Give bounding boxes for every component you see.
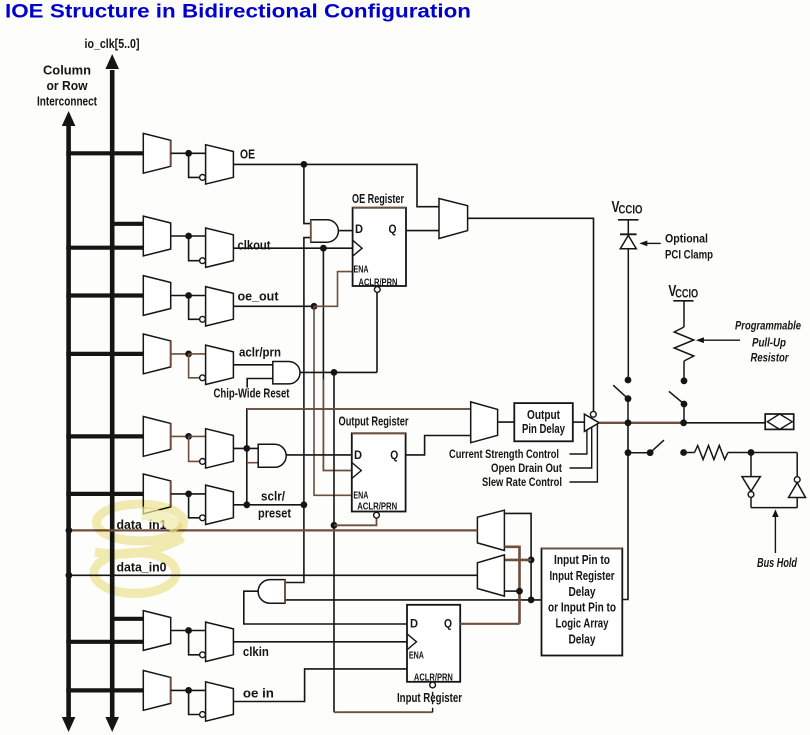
- svg-text:data_in0: data_in0: [117, 560, 167, 575]
- wire bus tap aclr/prn row: [66, 352, 143, 356]
- wire bus tap OE row: [66, 151, 143, 155]
- svg-text:Delay: Delay: [569, 633, 596, 647]
- svg-text:D: D: [354, 450, 362, 462]
- inverter bus hold feedback: [796, 453, 798, 477]
- svg-text:OE Register: OE Register: [352, 192, 404, 206]
- svg-text:Bus Hold: Bus Hold: [757, 556, 797, 570]
- AND gate chip-wide reset: [273, 362, 300, 384]
- wire data-out true input: [189, 435, 206, 437]
- wire data-out bypass riser: [247, 409, 471, 505]
- svg-text:Slew Rate Control: Slew Rate Control: [482, 475, 562, 489]
- wire stub to output AND lower input: [247, 462, 258, 464]
- wire input register Q out: [460, 623, 519, 625]
- inverter bubble data-out: [200, 459, 206, 465]
- svg-text:Resistor: Resistor: [751, 351, 790, 365]
- wire delay to buffer: [573, 421, 585, 423]
- inverter bubble oe_out: [200, 316, 206, 322]
- wire aclr vertical trunk: [333, 372, 335, 712]
- bubble buffer enable: [590, 411, 596, 417]
- junction data-out: [243, 445, 250, 452]
- mux clkout stage-1 select: [143, 216, 170, 256]
- junction input data to mux riser: [528, 597, 535, 604]
- svg-text:Current Strength Control: Current Strength Control: [449, 447, 559, 461]
- svg-text:CCIO: CCIO: [619, 205, 643, 217]
- mux clkin stage-1 select: [143, 611, 170, 651]
- wire data_in1 line: [69, 529, 478, 531]
- switch pull-up: [681, 377, 688, 384]
- wire bus tap sclr/preset row: [66, 492, 143, 496]
- svg-text:ENA: ENA: [353, 491, 368, 502]
- wire chip-wide reset stub: [247, 379, 273, 388]
- wire OE stage-1 output: [171, 152, 189, 154]
- wire sclr/preset inverted branch: [189, 494, 200, 518]
- mux sclr/preset stage-2 invert-select: [206, 485, 234, 524]
- junction data_in1 at interconnect: [66, 527, 73, 534]
- highlight connecting stroke: [95, 538, 183, 554]
- junction data-out: [185, 433, 192, 440]
- wire OE from mux to output-enable select mux: [233, 164, 439, 206]
- inverter bubble clkin: [200, 652, 206, 658]
- wire bus tap clkout row from io_clk: [112, 222, 143, 226]
- wire input data to muxes and input AND: [285, 599, 542, 601]
- mux clkout stage-2 invert-select: [206, 228, 234, 267]
- inverter bubble OE: [200, 175, 206, 181]
- svg-text:Open Drain Out: Open Drain Out: [491, 461, 562, 475]
- tri-state output buffer: [584, 414, 599, 431]
- inverter bubble clkout: [200, 258, 206, 264]
- wire data-out to AND and bypass: [233, 447, 258, 449]
- mux input data_in1 select: [477, 510, 504, 550]
- junction oe_out: [185, 292, 192, 299]
- svg-text:Input Register: Input Register: [397, 690, 462, 705]
- wire aclr/prn stage-1 output: [171, 353, 189, 355]
- svg-text:clkout: clkout: [238, 238, 272, 253]
- node Bus Hold label with arrow: [774, 515, 776, 554]
- svg-text:or Row: or Row: [47, 79, 88, 93]
- wire aclr/prn inverted branch: [189, 354, 200, 378]
- wire bus tap oe_in row: [66, 688, 143, 692]
- inverter bus hold forward: [750, 453, 752, 477]
- svg-text:Logic Array: Logic Array: [556, 617, 609, 631]
- block Input Pin to Input Register Delay: [542, 548, 623, 655]
- junction OE branch to OE register AND: [301, 161, 308, 168]
- wire bus hold bottom: [751, 507, 797, 509]
- mux oe_out stage-1 select: [143, 276, 170, 316]
- svg-text:Output: Output: [527, 408, 561, 422]
- wire bus hold resistor lead: [680, 449, 687, 456]
- inverter bubble aclr/prn: [200, 375, 206, 381]
- mux sclr/preset stage-1 select: [143, 474, 170, 514]
- wire pull-up down: [683, 361, 685, 380]
- bus Column/Row interconnect vertical line: [66, 126, 71, 720]
- wire clkin to input register clock: [233, 641, 407, 643]
- bubble OE register ACLR: [374, 287, 380, 293]
- svg-text:PCI Clamp: PCI Clamp: [665, 248, 713, 262]
- bubble input register ACLR: [430, 682, 436, 688]
- svg-text:Pin Delay: Pin Delay: [522, 422, 565, 436]
- svg-text:sclr/: sclr/: [261, 489, 285, 504]
- wire pci clamp down: [627, 249, 629, 380]
- svg-text:Input Register: Input Register: [550, 569, 615, 583]
- wire clkin stage-1 output: [171, 630, 189, 632]
- wire output enable to tri-state buffer: [468, 218, 594, 411]
- junction Q riser to mux B: [516, 588, 523, 595]
- flip-flop Output Register: [352, 433, 406, 511]
- wire Q riser to mux B lower input: [504, 590, 519, 592]
- junction aclr vertical: [331, 369, 338, 376]
- wire clkin true input: [189, 630, 206, 632]
- resistor programmable pull-up: [674, 327, 694, 361]
- svg-text:Q: Q: [390, 450, 398, 462]
- wire output register Q to data mux: [406, 436, 471, 455]
- svg-text:IOE Structure in Bidirectional: IOE Structure in Bidirectional Configura…: [5, 1, 471, 23]
- wire clkin inverted branch: [189, 631, 200, 655]
- junction clkin: [185, 627, 192, 634]
- svg-text:CCIO: CCIO: [675, 288, 698, 300]
- wire OE down to AND gate input: [304, 164, 311, 223]
- svg-text:clkin: clkin: [243, 644, 269, 659]
- svg-text:Chip-Wide Reset: Chip-Wide Reset: [214, 387, 291, 401]
- wire aclr riser to input register bubble (through label): [432, 688, 434, 712]
- svg-text:Programmable: Programmable: [735, 319, 801, 333]
- wire clock vertical to output register: [322, 248, 324, 380]
- wire sclr/preset run: [233, 504, 304, 506]
- mux oe_in stage-1 select: [143, 671, 170, 711]
- svg-text:ENA: ENA: [409, 650, 424, 661]
- wire oe_out inverted branch: [189, 296, 200, 320]
- mux output-enable select: [439, 199, 468, 239]
- svg-text:ENA: ENA: [354, 265, 369, 276]
- svg-text:Output Register: Output Register: [339, 415, 409, 429]
- wire oe_in stage-1 output: [171, 689, 189, 691]
- wire output AND to D: [286, 454, 352, 456]
- node Optional PCI Clamp label with arrow: [645, 242, 661, 244]
- junction pad line pci clamp: [625, 419, 632, 426]
- AND gate OE-register D input: [311, 220, 339, 243]
- block Output Pin Delay: [514, 403, 573, 441]
- svg-text:or Input Pin to: or Input Pin to: [548, 601, 616, 615]
- svg-text:OE: OE: [240, 147, 255, 162]
- wire sclr/preset stage-1 output: [171, 493, 189, 495]
- flip-flop Input Register: [407, 605, 460, 682]
- wire oe_in true input: [189, 689, 206, 691]
- wire bus tap clkout row from interconnect: [66, 246, 143, 250]
- switch bus hold enable: [628, 452, 650, 454]
- pad I/O pin: [765, 414, 794, 429]
- wire bus tap output-data row: [66, 434, 143, 438]
- wire OE inverted branch: [189, 153, 200, 177]
- svg-text:ACLR/PRN: ACLR/PRN: [357, 502, 397, 513]
- wire clkout stage-1 output: [171, 235, 189, 237]
- AND gate input path (mirrored): [258, 580, 285, 604]
- junction input branch: [625, 449, 632, 456]
- mux data-out stage-2 invert-select: [206, 429, 234, 468]
- junction sclr end: [301, 501, 308, 508]
- wire clkout inverted branch: [189, 236, 200, 261]
- bubble output register ACLR: [374, 512, 380, 518]
- wire data-out inverted branch: [189, 436, 200, 461]
- wire aclr up to OE register ACLR bubble: [376, 292, 378, 372]
- wire AND output to OE register D: [338, 230, 352, 232]
- wire buffer output to pad: [599, 422, 683, 424]
- mux oe_in stage-2 invert-select: [206, 682, 234, 721]
- wire open drain out: [570, 427, 592, 468]
- mux output data select: [471, 402, 498, 443]
- junction sclr/preset: [185, 491, 192, 498]
- wire oe_out to OE ENA riser: [314, 272, 353, 307]
- wire sclr/preset true input: [189, 493, 206, 495]
- diode optional PCI clamp: [620, 233, 637, 235]
- wire input mux riser: [504, 513, 531, 600]
- wire clkout to OE register clock: [233, 247, 352, 249]
- svg-text:Pull-Up: Pull-Up: [752, 336, 786, 350]
- svg-text:Interconnect: Interconnect: [37, 95, 98, 109]
- mux oe_out stage-2 invert-select: [206, 287, 234, 326]
- junction OE: [185, 150, 192, 157]
- svg-text:Q: Q: [444, 619, 452, 631]
- junction clkout: [185, 233, 192, 240]
- flip-flop OE Register: [353, 208, 406, 286]
- junction input riser to mux B: [528, 557, 535, 564]
- resistor bus hold series: [695, 446, 728, 460]
- AND gate output-register D input: [258, 444, 286, 467]
- wire aclr/prn true input: [189, 353, 206, 355]
- wire bus hold top: [728, 452, 751, 454]
- junction clkout to output register clock: [320, 245, 327, 252]
- wire current strength control: [570, 430, 587, 455]
- wire input AND output to input register D: [244, 591, 407, 624]
- wire slew rate control: [570, 424, 598, 482]
- wire data_in0 line: [69, 574, 478, 576]
- svg-text:io_clk[5..0]: io_clk[5..0]: [85, 37, 140, 51]
- junction oe_in: [185, 687, 192, 694]
- inverter bubble oe_in: [200, 712, 206, 718]
- switch pci clamp: [625, 377, 632, 384]
- svg-text:D: D: [410, 619, 418, 631]
- wire aclr to chip-wide AND: [233, 364, 272, 366]
- mux data-out stage-1 select: [143, 417, 170, 457]
- svg-text:Column: Column: [43, 64, 91, 78]
- junction bus hold: [748, 449, 755, 456]
- junction aclr to output register: [331, 522, 338, 529]
- wire oe_out true input: [189, 295, 206, 297]
- wire ena vertical to output register: [314, 306, 352, 495]
- wire bus tap clkin row from io_clk: [112, 617, 143, 621]
- wire riser to mux B input: [504, 559, 531, 562]
- wire input register Q riser: [504, 547, 519, 624]
- svg-text:aclr/prn: aclr/prn: [239, 345, 281, 360]
- svg-text:oe_out: oe_out: [238, 289, 280, 304]
- junction pad line pull-up: [680, 419, 687, 426]
- mux OE stage-1 select: [143, 133, 170, 173]
- wire pad to input delay: [622, 423, 628, 600]
- svg-text:Q: Q: [389, 224, 397, 236]
- junction data_in0 at interconnect: [66, 572, 73, 579]
- svg-text:Input Pin to: Input Pin to: [554, 553, 610, 567]
- wire data mux to output pin delay: [498, 421, 515, 423]
- wire sclr vertical to AND gates: [285, 238, 311, 583]
- bus io_clk vertical interconnect line: [110, 70, 115, 720]
- mux clkin stage-2 invert-select: [206, 622, 234, 661]
- wire aclr branch to output register ACLR bubble: [334, 518, 377, 525]
- node Programmable Pull-Up Resistor label with arrow: [702, 339, 740, 341]
- svg-text:D: D: [355, 224, 363, 236]
- junction oe_out ena branch: [311, 303, 318, 310]
- mux OE stage-2 invert-select: [206, 145, 234, 184]
- svg-text:preset: preset: [258, 506, 292, 521]
- highlight data_in0: [94, 553, 176, 594]
- wire bus tap oe_out row: [66, 293, 143, 297]
- wire OE register Q to select mux: [406, 230, 439, 232]
- wire clkout true input: [189, 235, 206, 237]
- mux aclr/prn stage-2 invert-select: [206, 345, 234, 384]
- wire oe_out to OE register ENA: [233, 305, 314, 307]
- highlight data_in1: [142, 513, 178, 530]
- mux input data_in0 select: [477, 555, 504, 596]
- wire OE true input: [189, 152, 206, 154]
- wire bus tap clkin row from interconnect: [66, 640, 143, 644]
- mux aclr/prn stage-1 select: [143, 334, 170, 374]
- inverter bubble sclr/preset: [200, 515, 206, 521]
- svg-text:Delay: Delay: [569, 585, 596, 599]
- wire oe_in inverted branch: [189, 690, 200, 714]
- junction data-out to sclr line: [243, 501, 250, 508]
- wire data-out stage-1 output: [171, 435, 189, 437]
- junction aclr/prn: [185, 351, 192, 358]
- svg-text:Optional: Optional: [665, 232, 708, 246]
- wire aclr AND output to registers: [300, 371, 377, 373]
- svg-text:oe in: oe in: [243, 686, 274, 701]
- wire oe_out stage-1 output: [171, 295, 189, 297]
- wire oe_in to input register ENA: [233, 669, 407, 702]
- wire aclr bottom run to input register ACLR: [334, 711, 433, 713]
